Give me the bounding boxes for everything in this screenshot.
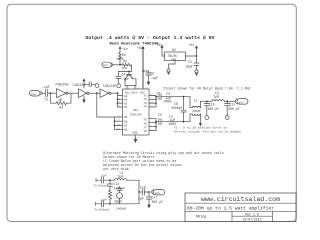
svg-text:C7: C7: [157, 91, 161, 95]
svg-text:300 pF: 300 pF: [208, 107, 220, 111]
inductor L3 1uH: [212, 91, 224, 101]
capacitor C5 .1uF VCC bypass: [143, 71, 158, 82]
capacitor C10 300pF shunt1: [204, 101, 219, 119]
svg-text:Y7: Y7: [144, 126, 148, 129]
output bus group1: [149, 96, 156, 108]
svg-text:not very wide: not very wide: [103, 167, 129, 171]
IC left pin numbers: [117, 93, 121, 130]
svg-text:A1: A1: [124, 95, 128, 98]
inductor L2 alt coil: [109, 190, 112, 199]
alt right rail: [138, 180, 140, 204]
svg-text:C5: C5: [151, 72, 155, 76]
node branch to lower inputs: [96, 92, 98, 94]
bypass cap at gate2: [84, 82, 95, 87]
svg-text:C1: C1: [45, 98, 49, 102]
capacitor C15 .1uF alt bottom: [96, 198, 111, 206]
svg-text:A8: A8: [124, 129, 128, 132]
svg-text:300 pF: 300 pF: [152, 200, 164, 204]
svg-text:10µF: 10µF: [185, 64, 193, 68]
+5v power arrow keying: [119, 46, 128, 53]
svg-text:osc: osc: [31, 93, 36, 96]
svg-text:A5: A5: [124, 116, 128, 119]
svg-text:74AC240: 74AC240: [55, 82, 68, 86]
feedback wire right leg: [67, 93, 72, 103]
svg-text:1500pF: 1500pF: [171, 106, 183, 110]
svg-text:ant: ant: [239, 101, 244, 104]
node alt ant: [148, 191, 150, 193]
svg-text:To Output: To Output: [95, 208, 110, 211]
svg-text:www.circuitsalad.com: www.circuitsalad.com: [201, 196, 280, 203]
wire L3 to ant: [224, 100, 235, 102]
svg-text:1M: 1M: [58, 98, 62, 102]
capacitor C16 1uF alt out: [138, 186, 149, 201]
connector ant alt: [151, 190, 164, 196]
enable pins wire: [125, 84, 136, 86]
node C11 filter: [226, 100, 228, 102]
svg-text:A3: A3: [124, 102, 128, 105]
svg-text:A6: A6: [124, 120, 128, 123]
wire R4 to key node: [119, 62, 121, 65]
svg-text:1µF: 1µF: [138, 197, 144, 201]
svg-text:Com: Com: [171, 58, 176, 61]
ground sphere near gate2: [95, 84, 99, 88]
IC left pin names A1-A8: [124, 95, 128, 132]
svg-text:+5v: +5v: [137, 46, 143, 50]
svg-text:ferrite toroid, ferrite rod or: ferrite toroid, ferrite rod or bobbin: [174, 130, 242, 134]
wire T1 to filter: [200, 100, 212, 102]
output bus group2: [149, 119, 156, 131]
node top input bus: [117, 92, 119, 94]
svg-text:U2: U2: [172, 48, 176, 52]
note alternate matching: [103, 151, 224, 171]
gate2 ground: [82, 96, 86, 103]
svg-text:C16: C16: [140, 186, 146, 190]
svg-text:C10: C10: [209, 102, 215, 106]
wire key to node: [113, 64, 122, 66]
svg-text:.1µF: .1µF: [100, 198, 107, 201]
connector Key input: [102, 62, 113, 67]
svg-text:R2: R2: [123, 60, 127, 64]
+5v power arrow VCC rail: [137, 46, 145, 89]
svg-text:RRing: RRing: [196, 214, 206, 219]
ground arrow T1: [199, 123, 202, 127]
title block: [185, 193, 296, 222]
key line bypass cap C4 .1uF: [116, 72, 129, 84]
wire gate3 out to input bus: [111, 92, 118, 94]
svg-text:.1µF: .1µF: [151, 76, 159, 80]
svg-text:74AC240: 74AC240: [72, 83, 85, 87]
svg-text:A7: A7: [124, 125, 128, 128]
node VCC bypass: [142, 70, 144, 72]
capacitor C14 1400pF alt upper: [108, 182, 126, 190]
connector J1 OSC input: [30, 90, 43, 96]
voltage regulator U2 78L05: [165, 48, 186, 61]
capacitor C1 .1uF: [42, 85, 50, 102]
transistor Q1: [125, 72, 136, 86]
svg-text:50pF: 50pF: [115, 200, 123, 204]
wire top drive line: [161, 96, 190, 98]
svg-text:1µH: 1µH: [214, 95, 220, 99]
svg-text:Y2: Y2: [144, 98, 148, 101]
IC top enable pins wire: [127, 85, 148, 89]
svg-text:Output .4 watts @ 5V - Output: Output .4 watts @ 5V - Output 1.3 watts …: [85, 35, 214, 41]
node C9 filter: [206, 100, 208, 102]
svg-text:80-20M up to 1.5 watt amplifie: 80-20M up to 1.5 watt amplifier: [187, 205, 274, 211]
wire C1 to gate1 input: [48, 92, 56, 94]
svg-text:A2: A2: [124, 99, 128, 102]
node key junction: [119, 64, 121, 66]
ground arrow C5: [147, 82, 151, 86]
IC U1 74AC240 body: [123, 89, 150, 135]
svg-text:C3: C3: [188, 60, 192, 64]
svg-text:A4: A4: [124, 106, 128, 109]
svg-text:.1µF: .1µF: [42, 85, 50, 89]
node alt bottom-left: [109, 203, 111, 205]
svg-text:Y8: Y8: [144, 130, 148, 133]
svg-text:Rush Heatsink 74AC240: Rush Heatsink 74AC240: [109, 42, 159, 47]
+9v power arrow regulator input: [157, 43, 165, 56]
svg-text:Y3: Y3: [144, 102, 148, 105]
ground sphere key bypass: [117, 84, 121, 88]
connector ant output: [235, 99, 248, 105]
svg-text:+9v: +9v: [157, 43, 163, 47]
capacitor C7 .1uF coupling top: [155, 91, 171, 103]
input bus group1: [118, 93, 123, 107]
+5v power arrow regulator output: [186, 43, 199, 56]
svg-text:Key: Key: [103, 64, 108, 67]
svg-text:Pinout shown for 40 Meter Band: Pinout shown for 40 Meter Band 7.00 -7.1…: [164, 86, 251, 90]
wire gate2 out to gate3: [89, 92, 100, 94]
feedback wire left leg: [51, 93, 57, 103]
svg-text:10/07/2013: 10/07/2013: [242, 217, 261, 221]
svg-text:To Output: To Output: [94, 185, 109, 188]
svg-text:74AC240: 74AC240: [103, 84, 116, 88]
regulator ground lead: [167, 61, 175, 76]
svg-text:74AC240: 74AC240: [130, 114, 142, 117]
svg-text:GND: GND: [133, 132, 138, 135]
IC ground pin 10: [134, 135, 141, 143]
inverter gate U1 first 74AC240: [54, 82, 73, 97]
svg-text:+5v: +5v: [122, 47, 128, 51]
wire alt bottom: [110, 203, 139, 205]
input bus group2: [115, 117, 123, 130]
svg-text:1µH: 1µH: [118, 175, 124, 179]
svg-text:R3: R3: [60, 106, 64, 110]
resistor R3 1M feedback: [56, 98, 67, 110]
trimmer cap alt middle: [115, 187, 123, 204]
svg-text:.1µF: .1µF: [122, 77, 130, 81]
svg-text:10k: 10k: [122, 66, 128, 70]
IC right pin names Y1-Y8: [144, 94, 148, 133]
svg-text:Y4: Y4: [144, 106, 148, 109]
svg-text:.1µF: .1µF: [100, 174, 107, 177]
node input gate1: [50, 92, 52, 94]
svg-text:C4: C4: [122, 73, 126, 77]
wire bottom drive line: [161, 121, 190, 123]
node bottom 1500pF: [183, 121, 185, 123]
capacitor C2 .1uF coupling bottom: [155, 113, 176, 126]
svg-text:Y1: Y1: [144, 94, 148, 97]
inverter gate U1 third 74AC240: [100, 84, 116, 98]
node alt top-left: [109, 179, 111, 181]
capacitor C11 300pF shunt2: [225, 101, 240, 119]
svg-text:78L05: 78L05: [168, 54, 178, 58]
svg-text:C3: C3: [158, 113, 162, 117]
transformer T1 balun: [190, 97, 201, 123]
wire down to lower input bus: [97, 93, 115, 117]
node alt right: [138, 191, 140, 193]
capacitor C17 300pF alt shunt: [147, 192, 164, 209]
node top 1500pF: [183, 96, 185, 98]
svg-text:400V: 400V: [164, 99, 172, 103]
svg-text:En2: En2: [132, 92, 137, 95]
svg-text:1400pF: 1400pF: [116, 208, 127, 211]
svg-text:+5v: +5v: [189, 43, 195, 47]
svg-text:T1: T1: [194, 99, 198, 103]
resistor R4 100k pullup: [116, 53, 126, 63]
svg-text:U1A: U1A: [133, 109, 138, 112]
svg-text:C11: C11: [229, 102, 235, 106]
svg-text:Rev 1.0: Rev 1.0: [245, 213, 258, 217]
inverter gate U1 second 74AC240: [72, 83, 89, 98]
IC right pin numbers: [150, 93, 153, 132]
resistor R2 10k: [122, 60, 131, 71]
svg-text:Y5: Y5: [144, 118, 148, 121]
inductor L1 1uH alt: [110, 171, 139, 180]
+5v power arrow gate2: [82, 78, 85, 88]
wire osc to C1: [43, 92, 45, 94]
capacitor C12 10uF regulator output: [185, 55, 199, 76]
svg-text:Y6: Y6: [144, 122, 148, 125]
alt left rail: [109, 180, 111, 204]
svg-text:300 pF: 300 pF: [228, 107, 240, 111]
wire R2 to Q1 base line: [119, 65, 132, 72]
capacitor C8 1500pF across drive lines: [171, 97, 186, 122]
node Q1 base: [128, 71, 130, 73]
wire gate1 out to gate2 in: [68, 92, 78, 94]
capacitor C13 .1uF alt top: [96, 174, 110, 183]
